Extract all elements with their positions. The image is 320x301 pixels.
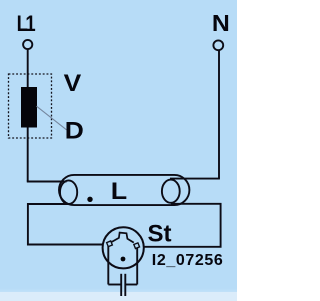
capacitor right wire [126, 284, 137, 286]
pointer line to D [37, 106, 67, 130]
starter left contact square [107, 241, 113, 247]
choke D (filled rect) [21, 87, 37, 128]
lamp right electrode [162, 180, 180, 203]
svg-text:I2_07256: I2_07256 [152, 252, 224, 269]
wire L1 down through ballast box [27, 49, 29, 181]
wire lamp left bottom pin to starter (left L path) [28, 204, 103, 245]
capacitor left wire [108, 284, 121, 286]
svg-text:St: St [148, 221, 172, 248]
lamp tube L (stadium) [59, 175, 189, 205]
starter left down lead [107, 246, 109, 285]
dot in lamp [87, 197, 92, 202]
starter right down lead [136, 248, 138, 285]
svg-text:L1: L1 [17, 12, 36, 36]
capacitor right plate [124, 274, 126, 296]
starter St circle [103, 227, 144, 268]
wire lamp right bottom pin down to starter right [144, 204, 221, 247]
svg-text:N: N [212, 11, 230, 37]
lamp left electrode [60, 180, 77, 204]
bottom light strip [0, 289, 237, 301]
wire ballast to lamp left top pin [27, 181, 67, 183]
svg-text:V: V [64, 70, 82, 97]
terminal circle N [213, 40, 223, 50]
svg-text:D: D [65, 117, 84, 144]
ballast dashed box V [9, 74, 52, 138]
starter bimetal switch line with bump [112, 233, 134, 243]
starter dot [121, 257, 126, 262]
capacitor left plate [120, 274, 122, 296]
terminal circle L1 [23, 40, 32, 49]
svg-text:L: L [111, 178, 127, 204]
starter right contact square [134, 243, 140, 249]
wire N down to lamp right top pin [218, 50, 220, 179]
